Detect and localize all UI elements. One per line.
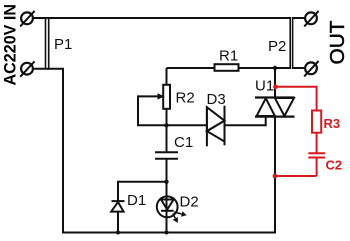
svg-text:D2: D2 — [180, 194, 199, 211]
svg-text:R2: R2 — [176, 90, 195, 107]
svg-text:AC220V IN: AC220V IN — [1, 4, 20, 86]
svg-text:D1: D1 — [127, 192, 146, 209]
svg-text:C1: C1 — [174, 134, 193, 151]
svg-text:R1: R1 — [219, 48, 238, 65]
svg-text:D3: D3 — [207, 91, 226, 108]
svg-text:U1: U1 — [255, 78, 274, 95]
svg-text:P2: P2 — [268, 38, 286, 55]
svg-text:OUT: OUT — [327, 20, 349, 64]
svg-text:P1: P1 — [54, 36, 72, 53]
svg-text:C2: C2 — [326, 158, 343, 173]
svg-text:R3: R3 — [324, 116, 341, 131]
